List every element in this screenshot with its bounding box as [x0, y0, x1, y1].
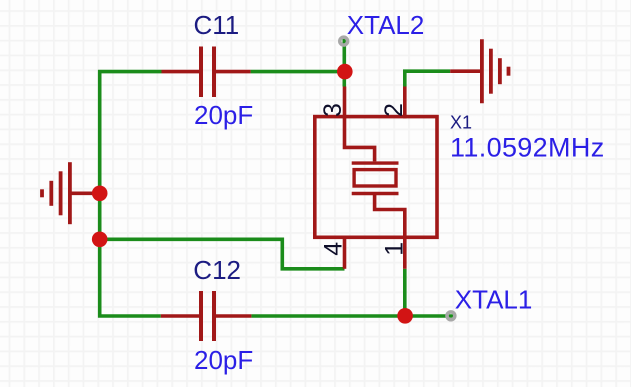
- svg-text:XTAL2: XTAL2: [347, 10, 425, 40]
- junction at left ground: [92, 186, 108, 202]
- crystal internal arm to pin 1: [375, 195, 405, 237]
- wire XTAL1 net: pin 1 down to junction: [403, 269, 407, 316]
- ground symbol (left): [42, 162, 100, 224]
- svg-text:20pF: 20pF: [194, 100, 253, 130]
- pin 4: [343, 236, 347, 269]
- wire GND branch to pin 4: [100, 239, 345, 268]
- junction at pin-4 branch: [92, 232, 108, 248]
- svg-text:2: 2: [380, 103, 408, 117]
- ground symbol (right): [450, 39, 508, 103]
- svg-text:4: 4: [319, 242, 347, 256]
- net port marker XTAL2: [340, 37, 348, 45]
- wire GND left rail: [100, 72, 162, 316]
- pin 1: [403, 236, 407, 269]
- svg-text:3: 3: [319, 103, 347, 117]
- wire XTAL2 net: C11 to junction: [251, 70, 347, 74]
- capacitor C11: [162, 47, 251, 98]
- junction at XTAL1 node: [397, 308, 413, 324]
- junction at XTAL2 node: [337, 64, 353, 80]
- crystal electrode plate top: [352, 161, 399, 164]
- wire GND: pin 2 to ground symbol: [405, 71, 450, 86]
- svg-text:1: 1: [380, 242, 408, 256]
- capacitor C12: [161, 291, 252, 341]
- svg-text:C11: C11: [194, 10, 240, 40]
- svg-text:XTAL1: XTAL1: [455, 284, 533, 314]
- crystal internal arm from pin 3: [345, 117, 375, 162]
- svg-text:20pF: 20pF: [194, 345, 253, 375]
- crystal resonator rectangle: [354, 170, 396, 186]
- svg-text:X1: X1: [450, 113, 472, 133]
- crystal electrode plate bottom: [352, 192, 399, 195]
- net port marker XTAL1: [447, 312, 455, 320]
- svg-text:C12: C12: [193, 255, 241, 285]
- wire XTAL2 net: port to pin 3: [342, 39, 346, 87]
- svg-text:11.0592MHz: 11.0592MHz: [450, 133, 605, 163]
- pin 3: [343, 87, 347, 119]
- pin 2: [403, 87, 407, 119]
- wire XTAL1 net: C12 to junction to port: [251, 314, 453, 318]
- crystal X1 body: [315, 117, 437, 238]
